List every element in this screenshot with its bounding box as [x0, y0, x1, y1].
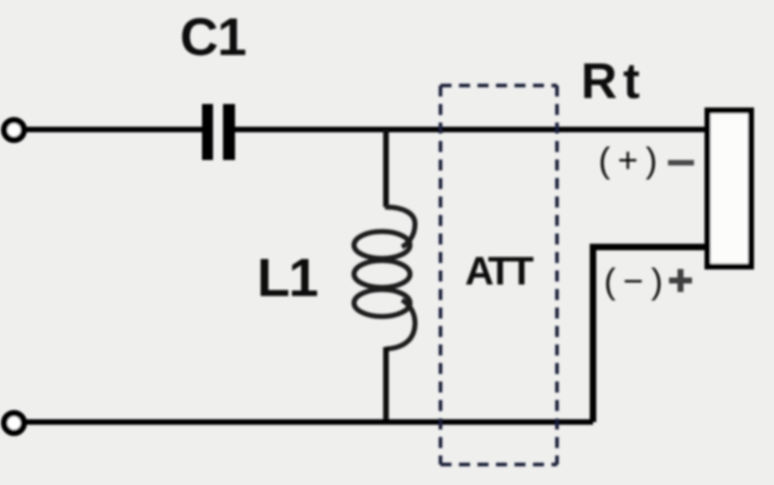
- terminal input -: [4, 413, 24, 433]
- polarity plus mark: [669, 269, 692, 292]
- svg-text:Rt: Rt: [581, 53, 646, 109]
- tweeter Rt body: [708, 111, 752, 267]
- wire L1 bottom lead: [383, 347, 389, 422]
- svg-text:L1: L1: [257, 248, 317, 308]
- svg-text:ATT: ATT: [465, 250, 533, 294]
- wire top right segment: [235, 127, 706, 133]
- wire tweeter negative return: [593, 247, 706, 422]
- inductor L1: [354, 207, 415, 349]
- node junction L1/top wire: [383, 130, 389, 208]
- svg-text:C1: C1: [180, 8, 246, 67]
- label ATT: [465, 250, 533, 294]
- attenuator box ATT: [441, 86, 558, 465]
- svg-text:(−): (−): [604, 262, 670, 301]
- label L1: [257, 248, 317, 308]
- label (-) wire polarity: [604, 262, 670, 301]
- label Rt: [581, 53, 646, 109]
- wire top left segment: [24, 127, 203, 133]
- svg-text:(+): (+): [599, 141, 665, 180]
- label C1: [180, 8, 246, 67]
- wire bottom: [24, 419, 593, 425]
- label (+) wire polarity: [599, 141, 665, 180]
- capacitor C1: [202, 104, 235, 160]
- polarity minus mark: [668, 160, 694, 166]
- terminal input +: [4, 120, 24, 140]
